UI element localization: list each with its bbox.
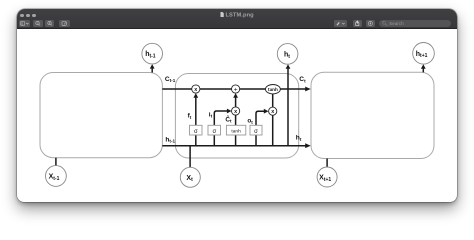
cell block left (t-1)	[40, 73, 162, 158]
svg-text:x: x	[234, 109, 237, 115]
wire h_t branch up to h_t node	[287, 68, 289, 146]
arrowhead h_t	[305, 143, 311, 148]
wire left cell top to h_(t-1) node	[151, 67, 153, 72]
gate box sigma 1 (forget)	[190, 125, 203, 135]
wire tanh ellipse down to output product	[272, 94, 274, 107]
svg-text:+: +	[234, 86, 238, 93]
wire right cell top to h_(t+1) node	[422, 67, 424, 72]
wire o_t vertical and corner	[256, 111, 265, 146]
title LSTM.png	[17, 12, 457, 19]
arrowhead C_t	[305, 87, 311, 92]
header / title bar	[17, 9, 457, 29]
svg-text:Ct: Ct	[299, 76, 306, 83]
wire x_(t-1) tick	[55, 158, 57, 166]
arrowhead into h_(t-1) node	[150, 64, 155, 69]
wire f_t vertical	[195, 96, 197, 146]
node h_t	[277, 44, 298, 65]
node h_(t+1)	[413, 43, 435, 65]
arrowhead into plus	[233, 93, 238, 98]
traffic light 1	[20, 13, 24, 17]
arrowhead into h_(t+1) node	[421, 64, 426, 69]
wire x_(t+1) tick	[326, 159, 328, 168]
svg-text:σ: σ	[254, 129, 258, 135]
op node forget product	[192, 85, 200, 93]
svg-text:x: x	[194, 87, 197, 93]
svg-text:Ct-1: Ct-1	[165, 76, 176, 83]
op node tanh ellipse	[266, 85, 281, 94]
traffic light 2	[26, 13, 30, 17]
wire output product down to h line	[272, 115, 274, 146]
node x_(t-1)	[46, 166, 67, 187]
svg-text:σ: σ	[194, 129, 198, 135]
svg-text:tanh: tanh	[268, 87, 278, 92]
window	[17, 9, 457, 202]
svg-text:σ: σ	[212, 129, 216, 135]
arrowhead f_t into forget gate	[193, 93, 198, 98]
node x_(t+1)	[317, 167, 337, 187]
toolbar button markup box	[59, 20, 69, 27]
op node input product	[232, 107, 240, 115]
wire input product to plus	[235, 96, 237, 107]
wire h line (hidden state)	[162, 145, 306, 147]
search field	[379, 20, 451, 27]
toolbar button zoom in	[45, 20, 55, 27]
op node plus	[232, 85, 240, 93]
gate box tanh (candidate)	[226, 125, 245, 135]
cell block right (t+1)	[311, 72, 434, 158]
toolbar button share	[353, 20, 362, 27]
svg-text:tanh: tanh	[231, 129, 241, 135]
node h_(t-1)	[142, 43, 163, 64]
cell block center (t)	[175, 74, 298, 159]
svg-text:x: x	[271, 109, 274, 115]
wire C line (cell state)	[162, 88, 306, 90]
wire x_t drop	[189, 146, 191, 168]
gate box sigma 2 (input)	[208, 125, 221, 135]
gate box sigma 3 (output)	[250, 125, 262, 135]
toolbar button sidebar	[19, 20, 30, 27]
node x_t	[180, 167, 200, 187]
arrowhead into h_t node	[286, 64, 291, 69]
arrowhead i_t into input product	[227, 109, 232, 114]
wire C tilde vertical	[235, 107, 237, 146]
traffic light 3	[32, 13, 36, 17]
svg-text:ht-1: ht-1	[165, 136, 175, 143]
op node output product	[269, 107, 277, 115]
wire i_t vertical and corner	[214, 111, 228, 146]
toolbar button markup pen	[366, 20, 375, 27]
toolbar button zoom out	[33, 20, 43, 27]
toolbar button highlight dropdown	[334, 20, 347, 27]
arrowhead o_t into output product	[264, 109, 269, 114]
svg-text:ht: ht	[296, 135, 302, 142]
